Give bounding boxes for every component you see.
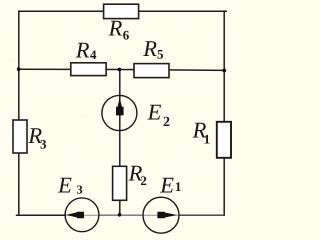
svg-text:2: 2 (163, 115, 170, 130)
node D junction bottom (118, 213, 122, 217)
wire top (19, 10, 227, 12)
node C junction right (222, 69, 226, 73)
node A junction left (17, 67, 21, 71)
svg-text:6: 6 (123, 27, 130, 42)
wire bottom right segment (178, 214, 225, 216)
wire left (18, 10, 20, 216)
wire right (223, 10, 225, 216)
wire bottom middle segment (98, 214, 144, 216)
resistor R1 (217, 122, 231, 158)
svg-text:1: 1 (175, 179, 182, 194)
resistor R3 (13, 120, 27, 153)
wire middle horizontal (19, 69, 224, 70)
svg-text:4: 4 (90, 47, 97, 62)
svg-text:E: E (57, 172, 72, 197)
wire middle vertical (119, 70, 121, 216)
svg-text:2: 2 (140, 173, 147, 188)
svg-text:3: 3 (77, 182, 83, 196)
svg-text:R: R (75, 37, 90, 62)
node B junction center (118, 68, 122, 72)
source E3 (65, 198, 99, 232)
svg-text:E: E (159, 173, 174, 198)
svg-text:R: R (142, 36, 157, 61)
svg-text:5: 5 (157, 46, 164, 61)
source E2 (102, 95, 137, 130)
svg-text:3: 3 (40, 137, 47, 152)
svg-text:R: R (108, 16, 123, 41)
wire bottom left segment (16, 214, 67, 216)
resistor R2 (113, 166, 127, 200)
resistor R6 (104, 4, 139, 18)
svg-text:1: 1 (204, 131, 211, 146)
resistor R5 (134, 64, 169, 78)
svg-text:E: E (147, 100, 162, 125)
resistor R4 (71, 63, 106, 76)
source E1 (143, 197, 179, 233)
